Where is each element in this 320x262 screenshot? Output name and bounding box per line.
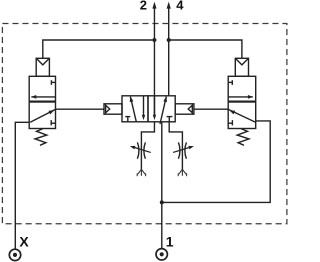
port X terminal circle xyxy=(9,249,20,260)
port 2 line xyxy=(153,8,155,115)
main valve V3 body left position xyxy=(122,96,148,122)
V3 left vertical flow arrow xyxy=(143,96,145,115)
V1 lower flow diagonal xyxy=(30,109,55,122)
right silencer xyxy=(178,169,186,176)
left silencer xyxy=(137,169,145,176)
right flow control restriction arcs xyxy=(178,142,180,158)
V1 upper flow arrow xyxy=(31,96,55,98)
junction node on port 4 line xyxy=(167,38,171,42)
V3 right diagonal flow arrow (1 to 4) xyxy=(160,97,166,124)
V1 return spring xyxy=(35,129,47,146)
svg-text:4: 4 xyxy=(176,0,184,13)
V2 upper blocked port xyxy=(228,81,232,83)
V1 upper blocked port xyxy=(51,81,55,83)
junction node on port 1 line xyxy=(160,200,164,204)
V2 lower flow diagonal xyxy=(228,109,255,122)
V2 lower blocked port xyxy=(228,122,232,124)
wire V1 to port X xyxy=(15,122,29,249)
wire V3 exhaust 3 to right flow control xyxy=(169,122,182,170)
V3 right pilot triangle xyxy=(188,105,192,113)
port 4 line xyxy=(168,8,170,96)
wire V3 right pilot to pilot valve V2 xyxy=(194,108,228,110)
svg-text:1: 1 xyxy=(166,234,174,250)
enclosure dashed boundary xyxy=(2,24,287,224)
V1 lower blocked port xyxy=(51,122,55,124)
wire V2 to supply line xyxy=(162,121,270,202)
pilot valve V1 body lower position xyxy=(29,102,55,129)
V3 right vertical flow arrow (2 to exhaust) xyxy=(153,96,155,115)
svg-text:2: 2 xyxy=(140,0,147,13)
wire pilot-valve V2 to port 4 node xyxy=(169,40,242,58)
V2 return spring xyxy=(237,129,249,146)
right flow control adjustment arrow xyxy=(173,147,191,152)
junction node on port 2 line xyxy=(152,38,156,42)
svg-text:X: X xyxy=(19,234,29,250)
V3 left pilot triangle xyxy=(106,105,110,113)
wire pilot-valve V1 to port 2 node xyxy=(43,40,155,58)
V3 left blocked port xyxy=(127,117,129,122)
port 4 arrow xyxy=(167,2,171,9)
pilot valve V2 air-pilot head xyxy=(235,58,248,76)
port 1 terminal circle xyxy=(156,249,167,260)
port 1 line xyxy=(161,122,163,249)
V3 left diagonal flow arrow xyxy=(130,97,136,122)
left flow control adjustment arrow xyxy=(133,147,151,152)
main valve V3 left pilot box xyxy=(104,104,122,114)
wire V1 output to main valve left pilot xyxy=(55,108,104,110)
pilot valve V1 body upper position xyxy=(29,76,55,101)
pilot valve V2 body lower position xyxy=(228,102,256,129)
V3 right blocked port xyxy=(168,117,170,122)
pilot valve V2 body upper position xyxy=(228,76,256,101)
pilot valve V1 air-pilot head xyxy=(36,58,49,76)
V2 upper flow arrow xyxy=(229,96,253,98)
main valve V3 right pilot box xyxy=(175,104,194,114)
wire V3 exhaust 5 to left flow control xyxy=(141,122,154,170)
main valve V3 body right position xyxy=(148,96,175,122)
port 2 arrow xyxy=(152,2,156,9)
left flow control restriction arcs xyxy=(137,142,139,158)
